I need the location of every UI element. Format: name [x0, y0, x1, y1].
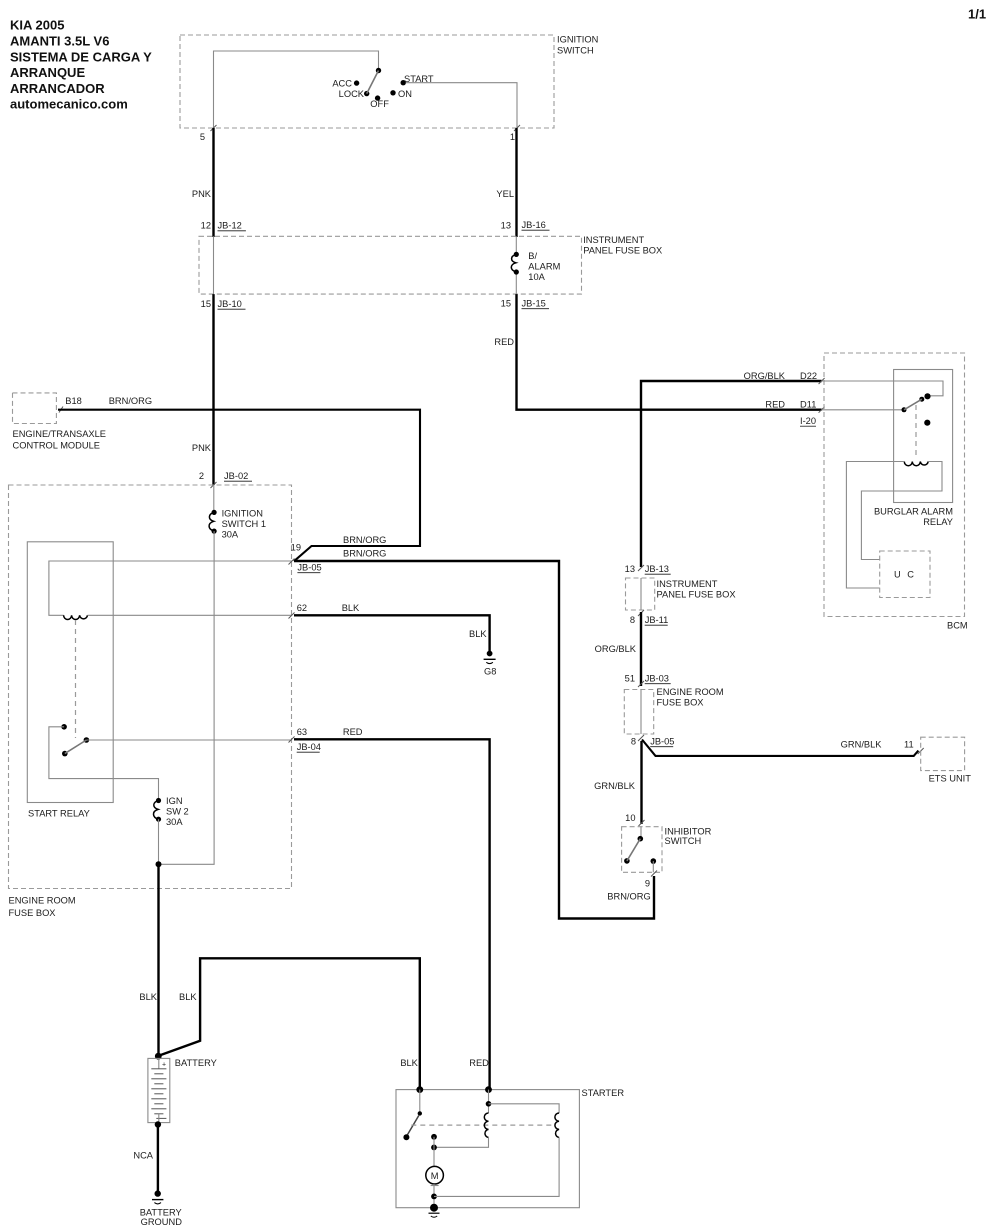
svg-text:JB-05: JB-05	[650, 737, 674, 747]
svg-text:FUSE BOX: FUSE BOX	[657, 698, 704, 708]
starter case ground	[429, 1204, 440, 1218]
svg-text:63: 63	[297, 727, 307, 737]
node 10	[625, 813, 644, 826]
svg-text:JB-05: JB-05	[297, 563, 321, 573]
wire ignition switch internal feed	[214, 51, 379, 128]
node starter BLK terminal	[416, 1086, 423, 1093]
battery ground	[140, 1190, 183, 1227]
wire BRN/ORG pin19 to inhibitor pin 9	[294, 549, 654, 919]
svg-text:BRN/ORG: BRN/ORG	[343, 549, 386, 559]
svg-text:START RELAY: START RELAY	[28, 809, 90, 819]
node pin 5	[200, 125, 217, 142]
wire START to pin 1	[406, 83, 517, 128]
svg-text:JB-03: JB-03	[645, 674, 669, 684]
node D11 I-20	[765, 400, 824, 427]
svg-text:8: 8	[631, 737, 636, 747]
wire hold-in coil to motor ground	[434, 1137, 559, 1196]
svg-text:BLK: BLK	[342, 603, 360, 613]
svg-text:automecanico.com: automecanico.com	[10, 97, 128, 112]
node 19 JB-05	[289, 543, 322, 573]
starter pull-in coil	[484, 1113, 488, 1137]
svg-text:IGNITION: IGNITION	[222, 509, 263, 519]
node 63 JB-04	[289, 727, 321, 752]
node 51 JB-03	[625, 674, 671, 688]
node 8 JB-11	[630, 610, 668, 625]
wire motor to case ground	[433, 1184, 435, 1208]
ignition key switch S1	[332, 68, 434, 109]
svg-text:ENGINE ROOM: ENGINE ROOM	[657, 687, 724, 697]
starter solenoid switch	[403, 1090, 422, 1141]
node junction	[156, 861, 162, 867]
svg-text:JB-15: JB-15	[522, 299, 546, 309]
wire PNK pin5 down	[212, 128, 214, 237]
svg-text:RED: RED	[469, 1058, 489, 1068]
wire GRN/BLK to ETS unit	[642, 740, 918, 756]
ignition switch box	[180, 35, 598, 129]
svg-text:ALARM: ALARM	[528, 262, 560, 272]
fuse IGNITION SWITCH 1 30A	[209, 509, 266, 540]
burglar alarm relay coil	[904, 462, 928, 466]
svg-text:13: 13	[625, 564, 635, 574]
node battery positive junction	[155, 1053, 162, 1060]
start relay switch	[61, 724, 89, 756]
svg-text:FUSE BOX: FUSE BOX	[9, 908, 56, 918]
svg-text:BRN/ORG: BRN/ORG	[343, 535, 386, 545]
wire internal	[640, 578, 642, 610]
node 8 JB-05	[631, 735, 675, 747]
svg-text:BATTERY: BATTERY	[140, 1208, 182, 1218]
wire RED 63 to starter	[294, 727, 490, 1090]
svg-text:PNK: PNK	[192, 189, 212, 199]
svg-text:U C: U C	[894, 570, 916, 580]
battery BT1	[148, 1058, 217, 1123]
node 13 JB-16	[501, 220, 550, 231]
wire D22 into relay NO contact	[822, 381, 943, 396]
svg-text:ORG/BLK: ORG/BLK	[595, 644, 637, 654]
svg-text:GROUND: GROUND	[141, 1217, 183, 1227]
svg-text:62: 62	[297, 603, 307, 613]
svg-text:I-20: I-20	[800, 416, 816, 426]
node 15 JB-15	[501, 299, 549, 309]
wire internal fuse down to junction	[159, 531, 215, 864]
svg-text:10: 10	[625, 813, 635, 823]
svg-text:RED: RED	[494, 337, 514, 347]
svg-text:BRN/ORG: BRN/ORG	[109, 396, 152, 406]
svg-text:BCM: BCM	[947, 621, 968, 631]
svg-text:RELAY: RELAY	[923, 517, 953, 527]
svg-text:INSTRUMENT: INSTRUMENT	[657, 579, 718, 589]
node 9	[607, 871, 657, 902]
svg-text:ORG/BLK: ORG/BLK	[744, 371, 786, 381]
svg-text:ENGINE/TRANSAXLE: ENGINE/TRANSAXLE	[13, 429, 107, 439]
inhibitor switch S2	[624, 827, 656, 873]
ETS unit box	[921, 737, 972, 783]
wire relay coil feed (pin 19 line)	[49, 561, 292, 615]
node 62	[289, 603, 308, 619]
wire BLK to battery positive	[139, 864, 158, 1056]
wire RED terminal down	[488, 1090, 490, 1113]
svg-text:5: 5	[200, 132, 205, 142]
wire D11 into relay common	[822, 409, 902, 411]
wire coil to pin 62	[88, 614, 292, 616]
engine/transaxle control module U2	[13, 393, 107, 451]
svg-text:19: 19	[291, 543, 301, 553]
svg-text:CONTROL MODULE: CONTROL MODULE	[13, 441, 100, 451]
starter hold-in coil	[555, 1113, 559, 1137]
svg-text:ON: ON	[398, 89, 412, 99]
ground G8	[484, 651, 497, 677]
svg-text:YEL: YEL	[496, 189, 514, 199]
node pin B18	[59, 396, 82, 413]
svg-text:BATTERY: BATTERY	[175, 1058, 217, 1068]
starter box	[396, 1088, 624, 1208]
svg-text:SISTEMA DE CARGA Y: SISTEMA DE CARGA Y	[10, 49, 152, 64]
svg-text:ACC: ACC	[332, 78, 352, 88]
svg-text:SWITCH: SWITCH	[557, 46, 594, 56]
svg-text:JB-16: JB-16	[522, 220, 546, 230]
node 15 JB-10	[201, 299, 246, 309]
svg-text:KIA 2005: KIA 2005	[10, 18, 64, 33]
svg-text:ARRANCADOR: ARRANCADOR	[10, 81, 105, 96]
svg-text:BLK: BLK	[179, 992, 197, 1002]
svg-text:IGN: IGN	[166, 796, 183, 806]
burglar alarm relay switch	[902, 393, 931, 426]
wire NCA to ground	[133, 1125, 158, 1193]
svg-text:JB-13: JB-13	[645, 564, 669, 574]
svg-text:B/: B/	[528, 251, 537, 261]
svg-text:AMANTI 3.5L V6: AMANTI 3.5L V6	[10, 34, 109, 49]
node 11	[904, 740, 924, 755]
svg-text:OFF: OFF	[370, 99, 389, 109]
wire BLK 62 to G8	[294, 603, 490, 651]
svg-text:INSTRUMENT: INSTRUMENT	[583, 235, 644, 245]
wire BLK starter to battery positive	[159, 958, 490, 1089]
wire ORG/BLK JB-11 to JB-03	[640, 612, 642, 686]
starter motor M	[426, 1166, 444, 1185]
svg-text:15: 15	[501, 299, 511, 309]
node 13 JB-13	[625, 564, 671, 574]
svg-text:BURGLAR ALARM: BURGLAR ALARM	[874, 507, 953, 517]
svg-text:PNK: PNK	[192, 443, 212, 453]
burglar alarm relay K2 box	[874, 370, 953, 528]
starter actuation dashed	[411, 1124, 554, 1126]
svg-text:SWITCH 1: SWITCH 1	[222, 519, 266, 529]
fuse B/ALARM 10A	[511, 251, 560, 282]
svg-text:BLK: BLK	[400, 1058, 418, 1068]
svg-text:ENGINE ROOM: ENGINE ROOM	[9, 896, 76, 906]
node D22	[800, 371, 825, 384]
svg-text:1: 1	[510, 132, 515, 142]
engine room fuse box 2	[624, 687, 723, 734]
svg-text:JB-12: JB-12	[218, 221, 242, 231]
fuse IGN SW 2 30A	[153, 796, 188, 827]
wire relay common to pin 63	[86, 739, 291, 741]
svg-text:STARTER: STARTER	[582, 1088, 625, 1098]
svg-text:NCA: NCA	[133, 1151, 153, 1161]
BCM box	[824, 353, 968, 631]
wire relay NO contact to IGN SW2	[49, 727, 159, 799]
svg-text:GRN/BLK: GRN/BLK	[841, 740, 883, 750]
svg-text:SWITCH: SWITCH	[665, 836, 702, 846]
svg-text:15: 15	[201, 299, 211, 309]
svg-text:1/1: 1/1	[968, 7, 986, 22]
svg-text:30A: 30A	[222, 530, 239, 540]
wire PNK JB-10 down to JB-02	[212, 294, 214, 485]
svg-text:JB-10: JB-10	[218, 299, 242, 309]
node battery negative	[155, 1121, 161, 1127]
svg-text:RED: RED	[343, 727, 363, 737]
svg-text:11: 11	[904, 740, 914, 750]
svg-text:PANEL FUSE BOX: PANEL FUSE BOX	[657, 590, 736, 600]
svg-text:D22: D22	[800, 371, 817, 381]
svg-text:30A: 30A	[166, 817, 183, 827]
svg-text:SW 2: SW 2	[166, 807, 189, 817]
engine room fuse box (left)	[9, 485, 292, 918]
instrument panel fuse box 1	[199, 235, 662, 294]
start relay actuation (dashed)	[75, 620, 77, 738]
svg-text:51: 51	[625, 674, 635, 684]
wire internal right	[515, 236, 517, 294]
wire RED JB-15 down and right to D11	[517, 294, 822, 410]
svg-text:LOCK: LOCK	[339, 89, 365, 99]
svg-text:JB-04: JB-04	[297, 742, 321, 752]
svg-text:13: 13	[501, 221, 511, 231]
node contact pair	[431, 1134, 437, 1140]
svg-text:BLK: BLK	[469, 629, 487, 639]
svg-text:INHIBITOR: INHIBITOR	[665, 827, 712, 837]
svg-text:8: 8	[630, 615, 635, 625]
node 2 JB-02	[199, 471, 252, 488]
title block	[10, 18, 152, 112]
wire to hold-in coil	[489, 1104, 560, 1113]
svg-text:2: 2	[199, 471, 204, 481]
svg-text:G8: G8	[484, 667, 496, 677]
wire ORG/BLK to D22 and down	[641, 371, 822, 567]
svg-text:12: 12	[201, 221, 211, 231]
node starter RED terminal	[485, 1086, 492, 1093]
svg-text:GRN/BLK: GRN/BLK	[594, 781, 636, 791]
svg-text:JB-02: JB-02	[224, 471, 248, 481]
svg-text:RED: RED	[765, 400, 785, 410]
wire GRN/BLK down to inhibitor	[594, 741, 641, 824]
svg-text:BLK: BLK	[139, 992, 157, 1002]
UC unit box	[880, 551, 930, 598]
start relay K1 box	[27, 542, 113, 819]
svg-text:JB-11: JB-11	[645, 615, 669, 625]
relay actuation dashed	[915, 405, 917, 455]
wire fuse to junction	[158, 819, 160, 864]
svg-text:M: M	[431, 1171, 439, 1181]
wire internal PNK to fuse	[213, 485, 215, 511]
svg-text:PANEL FUSE BOX: PANEL FUSE BOX	[583, 246, 662, 256]
inhibitor switch box	[622, 827, 712, 873]
start relay coil	[64, 615, 88, 619]
node 12 JB-12	[201, 221, 246, 231]
svg-text:BRN/ORG: BRN/ORG	[607, 892, 650, 902]
svg-text:ETS UNIT: ETS UNIT	[929, 774, 972, 784]
instrument panel fuse box 2	[626, 578, 736, 610]
wire internal	[640, 690, 642, 735]
wire coil left to UC	[846, 462, 904, 589]
node pin 1	[510, 125, 520, 142]
svg-text:B18: B18	[65, 396, 82, 406]
wire coil right to UC	[861, 462, 942, 560]
svg-text:10A: 10A	[528, 272, 545, 282]
wire pull-in coil to motor	[434, 1137, 489, 1147]
wire YEL pin1 down	[515, 128, 517, 237]
svg-text:IGNITION: IGNITION	[557, 35, 598, 45]
wire internal left	[213, 236, 215, 294]
svg-text:9: 9	[645, 879, 650, 889]
wire BRN/ORG B18 to JB-05 pin 19	[58, 396, 420, 561]
svg-text:+: +	[162, 1062, 166, 1069]
svg-text:ARRANQUE: ARRANQUE	[10, 65, 85, 80]
svg-text:D11: D11	[800, 400, 816, 410]
